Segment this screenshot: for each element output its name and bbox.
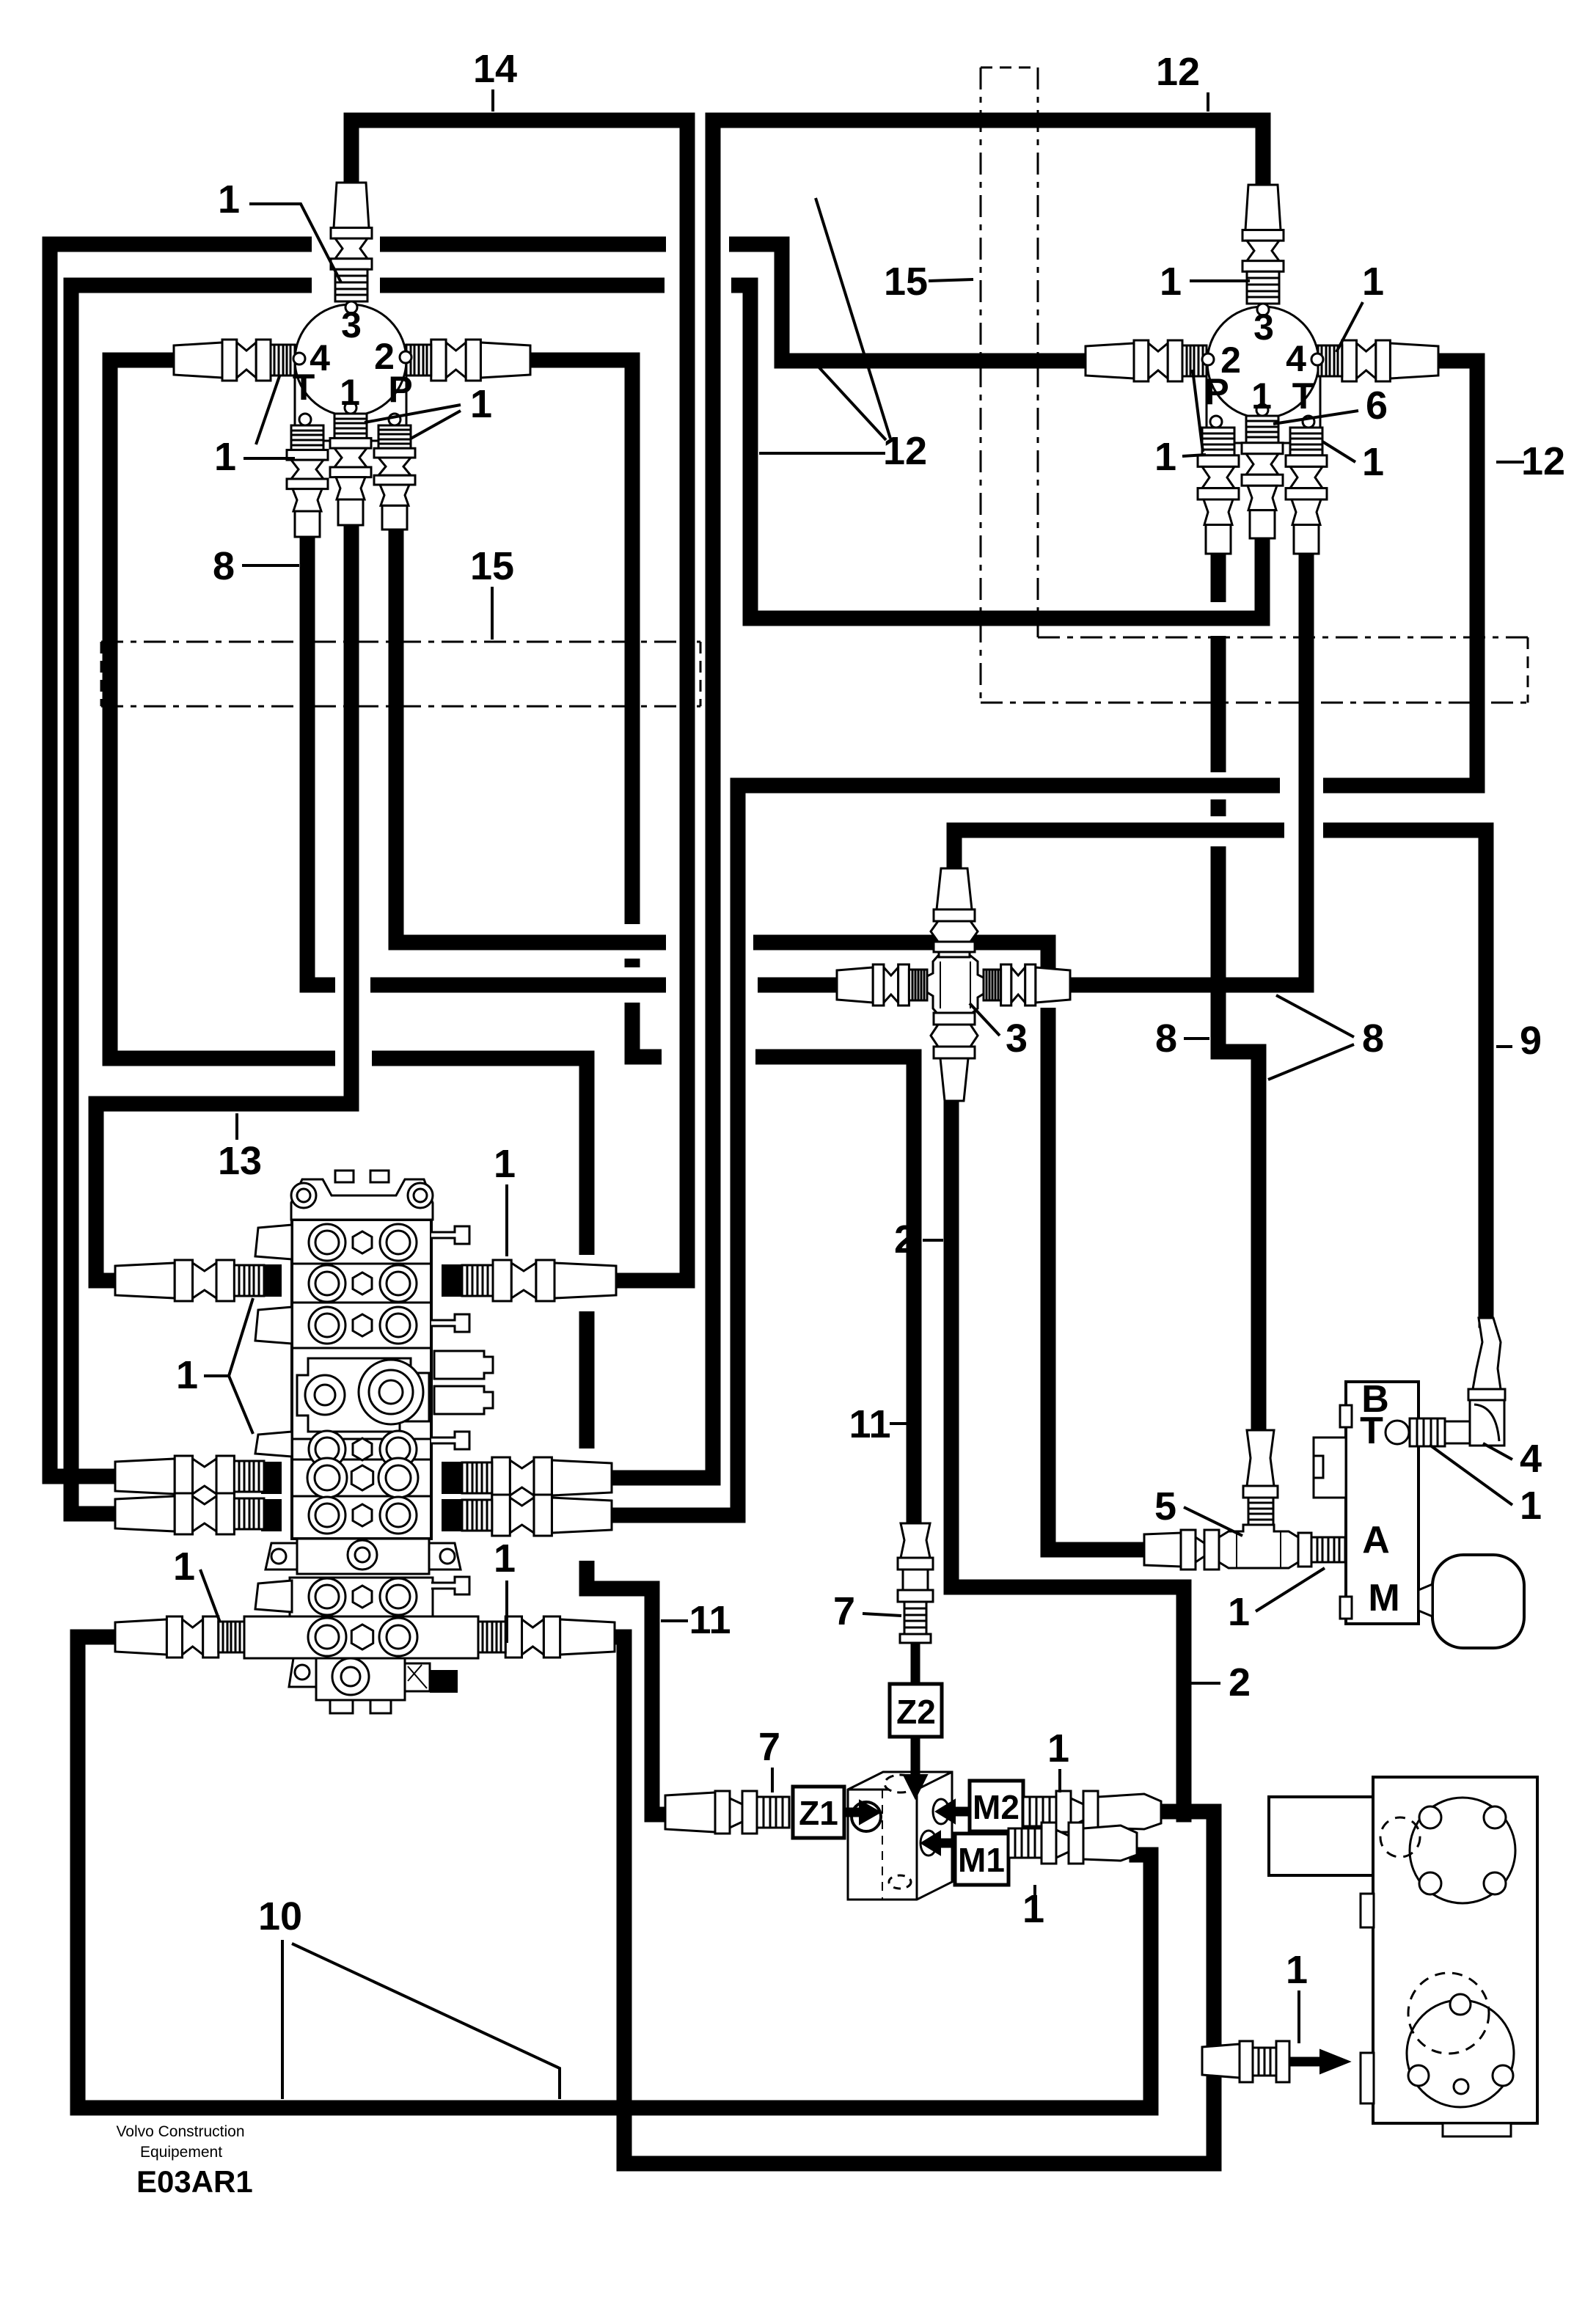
joystick right portP fitting	[1202, 428, 1234, 455]
svg-text:4: 4	[1520, 1437, 1542, 1481]
svg-text:7: 7	[758, 1725, 780, 1769]
M2 label box	[970, 1781, 1023, 1831]
svg-text:1: 1	[1047, 1726, 1069, 1770]
joystick left body	[295, 371, 406, 441]
valve section row5 ports	[292, 1495, 431, 1498]
svg-text:8: 8	[1155, 1017, 1177, 1061]
hose 13 (LJ port1 to valve arm1-left)	[96, 521, 351, 1281]
svg-text:3: 3	[1006, 1017, 1028, 1061]
svg-text:4: 4	[1286, 338, 1306, 379]
hose 8 (RJ portP to tee fitting 5 top)	[1218, 555, 1259, 1430]
svg-text:Volvo Construction: Volvo Construction	[116, 2123, 244, 2140]
svg-text:1: 1	[173, 1545, 195, 1589]
hose 14 (LJ port3 to valve arm1-right)	[351, 120, 687, 1281]
svg-text:11: 11	[689, 1598, 731, 1642]
manifold block	[848, 1772, 952, 1900]
hose 10 (bottom valve left arm to M1)	[78, 1637, 1151, 2108]
svg-text:1: 1	[1228, 1590, 1250, 1634]
valve section row1	[292, 1263, 431, 1265]
hose 11 (LJ port4 to manifold Z1)	[110, 360, 665, 1814]
svg-text:T: T	[293, 367, 315, 408]
tee fitting 5 top stack	[1247, 1430, 1274, 1486]
solenoid valve block	[1346, 1382, 1419, 1624]
valve arm1 right fitting	[442, 1264, 462, 1297]
M2 connector fitting	[1023, 1797, 1056, 1826]
svg-text:12: 12	[1156, 50, 1200, 94]
valve arm2 left fitting	[261, 1462, 282, 1494]
svg-text:8: 8	[213, 544, 235, 588]
valve bottom plate	[297, 1539, 429, 1574]
joystick right portT fitting	[1290, 428, 1322, 455]
svg-text:Z1: Z1	[799, 1794, 838, 1832]
svg-text:1: 1	[214, 435, 236, 479]
svg-text:9: 9	[1520, 1019, 1542, 1063]
Z1 label box	[793, 1787, 844, 1838]
pump top flange	[1410, 1798, 1515, 1903]
Z2 label box	[890, 1684, 942, 1737]
svg-text:3: 3	[1253, 307, 1274, 348]
hose 12 run D (RJ port4 to valve arm3-right)	[612, 361, 1477, 1515]
valve arm1 left fitting	[261, 1264, 282, 1297]
cross fitting body	[927, 956, 984, 1014]
svg-text:M: M	[1368, 1577, 1399, 1619]
svg-text:12: 12	[1521, 439, 1565, 483]
Z2 fitting stack item 7	[901, 1523, 930, 1558]
pump bottom flange	[1407, 2000, 1514, 2107]
cross fitting bottom stack	[934, 1013, 975, 1025]
valve mid section inlet	[292, 1438, 431, 1440]
svg-text:2: 2	[894, 1217, 916, 1261]
cross fitting right connector	[1036, 967, 1070, 1003]
svg-text:P: P	[388, 369, 412, 410]
joystick left portT fitting	[291, 425, 323, 450]
valve section row3	[292, 1347, 431, 1349]
cross fitting top stack	[937, 868, 972, 909]
svg-text:5: 5	[1154, 1484, 1176, 1528]
pump bottom tab	[1443, 2123, 1511, 2136]
svg-text:7: 7	[833, 1589, 855, 1633]
svg-text:10: 10	[258, 1894, 302, 1938]
pump left ports	[1361, 1894, 1374, 1927]
svg-text:1: 1	[494, 1537, 516, 1581]
joystick right port2 fitting	[1086, 343, 1134, 378]
svg-text:M1: M1	[958, 1841, 1005, 1879]
svg-text:1: 1	[1251, 376, 1272, 417]
hose 12 run A (valve arm2-left to RJ port2)	[50, 244, 1086, 1476]
solenoid block left attachment	[1314, 1437, 1346, 1498]
joystick left port4 fitting	[174, 343, 222, 378]
svg-text:6: 6	[1366, 384, 1388, 428]
joystick right port4 fitting	[1390, 343, 1438, 378]
machine outline dash band left	[101, 641, 700, 643]
bottom valve relief valve	[405, 1663, 430, 1691]
hose 11 (LJ port2 to manifold Z2)	[530, 360, 914, 1523]
svg-text:A: A	[1362, 1519, 1390, 1561]
svg-text:1: 1	[176, 1353, 198, 1397]
valve section row4	[292, 1459, 431, 1461]
pump motor box	[1269, 1797, 1373, 1875]
svg-text:1: 1	[1160, 260, 1182, 304]
bottom valve bolts	[330, 1700, 353, 1713]
pump inlet connector item 1	[1202, 2044, 1240, 2078]
hose 12 run B (valve arm3-left to RJ port1)	[71, 285, 1262, 1514]
valve section row6 ports	[309, 1497, 345, 1534]
svg-text:1: 1	[1520, 1484, 1542, 1528]
tee fitting 5 west connector	[1144, 1533, 1181, 1567]
M1 label box	[955, 1834, 1009, 1885]
valve arm2 right fitting	[442, 1462, 462, 1494]
svg-text:1: 1	[1154, 435, 1176, 479]
bottom valve upper row	[290, 1578, 433, 1616]
bottom valve arm row body	[244, 1616, 478, 1658]
svg-text:11: 11	[849, 1402, 890, 1446]
pump body	[1373, 1777, 1537, 2123]
svg-text:P: P	[1204, 371, 1229, 412]
valve relief valves	[434, 1351, 493, 1379]
svg-text:8: 8	[1362, 1017, 1384, 1061]
joystick left port2 fitting	[480, 343, 530, 378]
svg-text:1: 1	[340, 372, 360, 413]
hose pressure line (M2 junction / pump / bottom valve)	[613, 1637, 1214, 2164]
hose 9 (cross top to solenoid valve port T)	[954, 830, 1486, 1320]
continuous hose segments redrawn over gaps	[680, 220, 695, 308]
elbow fitting item 4	[1470, 1400, 1504, 1446]
svg-text:1: 1	[494, 1142, 516, 1186]
hose 8 (cross fitting to RJ portT)	[1067, 555, 1306, 985]
svg-text:T: T	[1360, 1410, 1383, 1452]
valve arm3 right fitting	[442, 1499, 462, 1531]
hose crossing gaps	[666, 235, 729, 254]
svg-text:Z2: Z2	[896, 1693, 936, 1731]
svg-text:2: 2	[1229, 1660, 1251, 1704]
hose 8 (LJ portP to tee fitting 5)	[396, 531, 1144, 1550]
port T ball fitting	[1385, 1421, 1409, 1444]
svg-text:T: T	[1292, 376, 1315, 417]
svg-text:15: 15	[470, 544, 514, 588]
M1 connector fitting	[1009, 1828, 1042, 1858]
joystick right port1 fitting	[1246, 416, 1278, 443]
svg-text:M2: M2	[973, 1788, 1020, 1826]
control valve top bracket	[291, 1179, 433, 1220]
joystick left portP fitting	[378, 425, 411, 448]
bottom valve left arm fitting	[115, 1619, 166, 1655]
joystick left port1 fitting	[334, 414, 367, 438]
tee fitting 5 body	[1219, 1525, 1298, 1568]
hose 12 run C (RJ port3 to valve arm2-right)	[612, 120, 1263, 1478]
joystick right body	[1207, 373, 1320, 443]
svg-text:1: 1	[1362, 440, 1384, 484]
svg-text:3: 3	[341, 304, 362, 345]
tee fitting 5 right threads to port A	[1298, 1533, 1311, 1567]
hose 2 (cross bottom to M2 junction)	[951, 1102, 1184, 1814]
svg-text:E03AR1: E03AR1	[136, 2164, 253, 2199]
svg-text:1: 1	[218, 177, 240, 221]
valve section row2 ports	[292, 1302, 431, 1304]
accumulator	[1432, 1555, 1524, 1648]
Z1 connector item 7	[665, 1792, 715, 1832]
svg-text:1: 1	[1362, 260, 1384, 304]
bottom valve end cap	[316, 1658, 405, 1700]
svg-text:15: 15	[884, 260, 928, 304]
svg-text:14: 14	[473, 47, 517, 91]
joystick right port3 fitting	[1245, 185, 1281, 230]
valve arm3 left fitting	[261, 1499, 282, 1531]
svg-text:13: 13	[218, 1139, 262, 1183]
hose 8 (LJ portT to cross fitting)	[307, 538, 837, 985]
bottom valve right arm fitting	[560, 1619, 615, 1655]
svg-text:Equipement: Equipement	[140, 2144, 222, 2161]
svg-text:1: 1	[1286, 1948, 1308, 1992]
joystick left port3 fitting	[334, 183, 369, 228]
machine outline dash band right	[981, 67, 1038, 69]
control valve main body	[292, 1220, 431, 1539]
svg-text:1: 1	[470, 382, 492, 426]
cross fitting left connector	[837, 967, 873, 1003]
